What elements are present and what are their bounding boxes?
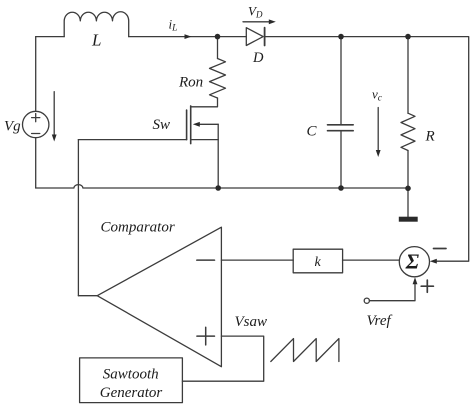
svg-text:R: R: [425, 129, 435, 145]
svg-text:Vg: Vg: [4, 119, 21, 135]
svg-text:Generator: Generator: [100, 385, 163, 401]
svg-text:Sw: Sw: [153, 117, 171, 133]
svg-text:L: L: [91, 31, 101, 50]
svg-text:Ron: Ron: [178, 75, 203, 91]
svg-text:C: C: [307, 124, 318, 140]
svg-text:Sawtooth: Sawtooth: [103, 367, 159, 383]
svg-text:Vsaw: Vsaw: [235, 314, 268, 330]
svg-text:Vref: Vref: [367, 313, 393, 329]
svg-text:k: k: [315, 255, 322, 270]
svg-text:D: D: [252, 50, 264, 66]
svg-text:Σ: Σ: [405, 250, 420, 274]
svg-text:Comparator: Comparator: [101, 220, 175, 236]
